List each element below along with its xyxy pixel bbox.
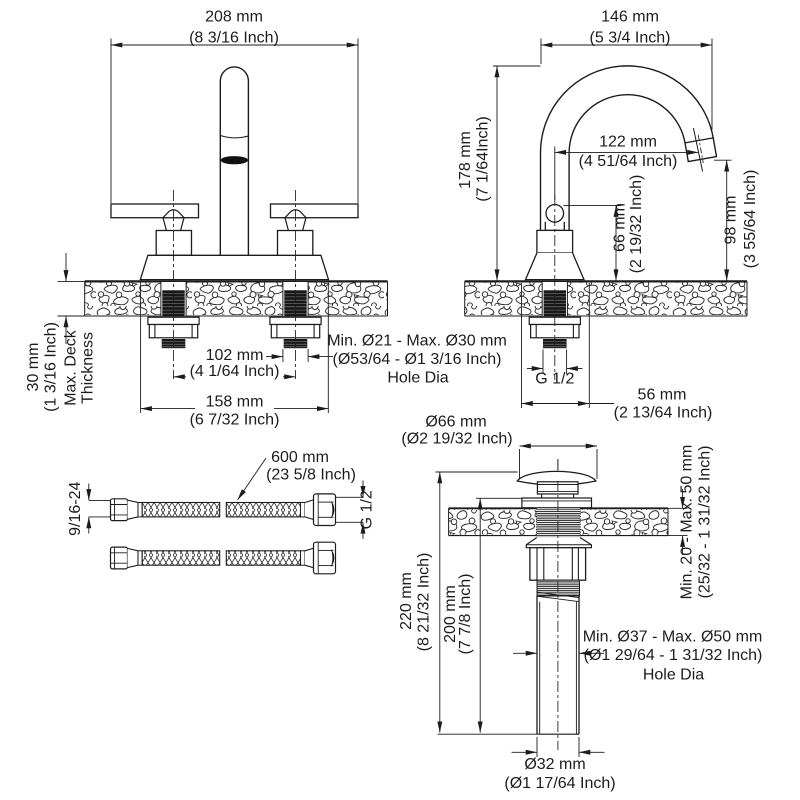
svg-text:(6 7/32 Inch): (6 7/32 Inch) <box>190 412 280 429</box>
svg-text:(7 1/64Inch): (7 1/64Inch) <box>475 116 492 201</box>
svg-text:(1 3/16 Inch): (1 3/16 Inch) <box>43 322 60 412</box>
svg-text:G 1/2: G 1/2 <box>359 490 376 529</box>
svg-text:56 mm: 56 mm <box>638 387 687 404</box>
svg-text:66 mm: 66 mm <box>612 203 629 252</box>
svg-text:178 mm: 178 mm <box>457 131 474 189</box>
svg-text:122 mm: 122 mm <box>599 134 657 151</box>
svg-text:146 mm: 146 mm <box>601 9 659 26</box>
svg-text:9/16-24: 9/16-24 <box>67 481 84 535</box>
svg-text:(7 7/8 Inch): (7 7/8 Inch) <box>457 574 474 655</box>
svg-text:(Ø1 17/64 Inch): (Ø1 17/64 Inch) <box>504 775 615 792</box>
svg-text:(25/32 - 1 31/32 Inch): (25/32 - 1 31/32 Inch) <box>697 446 714 599</box>
svg-text:Ø66 mm: Ø66 mm <box>425 414 486 431</box>
svg-text:98 mm: 98 mm <box>723 196 740 245</box>
svg-text:(5 3/4 Inch): (5 3/4 Inch) <box>590 30 671 47</box>
svg-text:600 mm: 600 mm <box>271 449 329 466</box>
svg-text:(4 51/64 Inch): (4 51/64 Inch) <box>579 153 678 170</box>
svg-text:(Ø53/64 - Ø1 3/16 Inch): (Ø53/64 - Ø1 3/16 Inch) <box>333 351 502 368</box>
svg-text:102 mm: 102 mm <box>206 347 264 364</box>
svg-text:(8 21/32 Inch): (8 21/32 Inch) <box>416 553 433 652</box>
svg-text:(2 19/32 Inch): (2 19/32 Inch) <box>628 175 645 274</box>
svg-text:Min. Ø21 - Max. Ø30 mm: Min. Ø21 - Max. Ø30 mm <box>327 333 507 350</box>
svg-text:(Ø1 29/64 - 1 31/32 Inch): (Ø1 29/64 - 1 31/32 Inch) <box>584 647 763 664</box>
svg-text:(2 13/64 Inch): (2 13/64 Inch) <box>614 405 713 422</box>
svg-text:(3 55/64 Inch): (3 55/64 Inch) <box>742 170 759 269</box>
svg-text:Ø32 mm: Ø32 mm <box>524 756 585 773</box>
svg-text:(4 1/64 Inch): (4 1/64 Inch) <box>190 363 280 380</box>
svg-text:220 mm: 220 mm <box>398 572 415 630</box>
svg-text:G 1/2: G 1/2 <box>535 371 574 388</box>
svg-text:30 mm: 30 mm <box>25 343 42 392</box>
svg-text:(23 5/8 Inch): (23 5/8 Inch) <box>266 467 356 484</box>
svg-text:Min. 20 - Max. 50 mm: Min. 20 - Max. 50 mm <box>679 445 696 600</box>
svg-text:Min. Ø37 - Max. Ø50 mm: Min. Ø37 - Max. Ø50 mm <box>583 629 763 646</box>
svg-text:Max. Deck: Max. Deck <box>63 329 80 406</box>
svg-text:(Ø2 19/32 Inch): (Ø2 19/32 Inch) <box>401 431 512 448</box>
svg-text:Hole Dia: Hole Dia <box>643 667 704 684</box>
svg-text:Thickness: Thickness <box>80 332 97 404</box>
svg-text:(8 3/16 Inch): (8 3/16 Inch) <box>189 30 279 47</box>
svg-text:158 mm: 158 mm <box>206 394 264 411</box>
svg-text:208 mm: 208 mm <box>205 9 263 26</box>
svg-text:Hole Dia: Hole Dia <box>387 370 448 387</box>
